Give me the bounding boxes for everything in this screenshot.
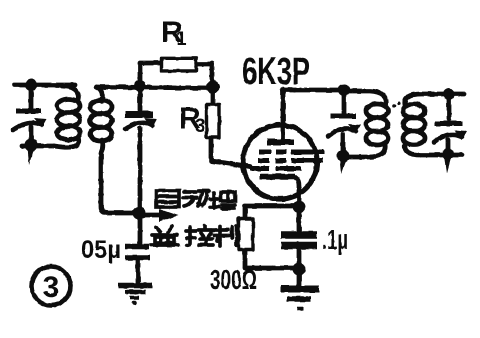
svg-text:6K3P: 6K3P bbox=[242, 51, 310, 93]
svg-text:.1µ: .1µ bbox=[322, 224, 348, 255]
svg-text:300Ω: 300Ω bbox=[210, 264, 257, 295]
svg-text:1: 1 bbox=[176, 29, 187, 50]
svg-text:05µ: 05µ bbox=[81, 236, 121, 264]
svg-text:3: 3 bbox=[43, 271, 60, 304]
svg-text:3: 3 bbox=[195, 116, 206, 137]
